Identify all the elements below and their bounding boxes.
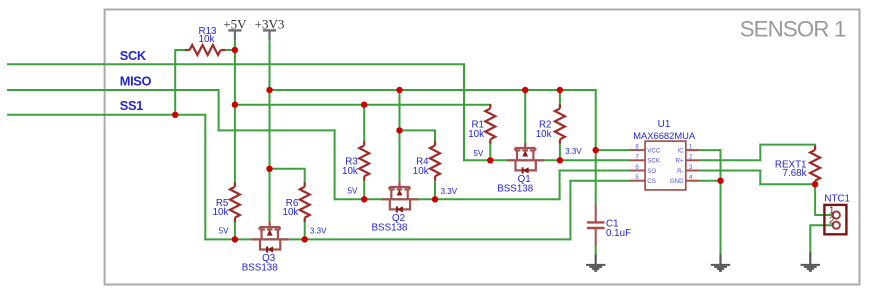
- resistor R3 10k: [359, 141, 369, 180]
- wire C1 bottom wire: [595, 245, 597, 254]
- svg-text:3.3V: 3.3V: [441, 187, 458, 196]
- svg-text:10k: 10k: [199, 34, 215, 45]
- junction REXT1 bottom / NTC1: [812, 181, 818, 187]
- resistor R4 10k: [430, 141, 440, 180]
- svg-text:MAX6682MUA: MAX6682MUA: [633, 130, 696, 141]
- wire branch to R4 top: [400, 130, 436, 141]
- svg-text:SCK: SCK: [647, 158, 661, 165]
- wire net SS1 horizontal entry: [8, 114, 205, 116]
- svg-text:10k: 10k: [413, 166, 429, 177]
- svg-text:R-: R-: [677, 168, 684, 175]
- junction R3 top on 5V row: [361, 102, 367, 108]
- U1 pin 7 (SCK) stub: [630, 159, 646, 161]
- transistor Q1 BSS138 (N-MOSFET): [507, 143, 544, 174]
- wire R2 bottom wire: [559, 144, 561, 161]
- junction R2 bottom on Q1 row: [557, 157, 563, 163]
- svg-text:U1: U1: [658, 119, 671, 130]
- junction R3 bottom on Q2 row: [361, 196, 367, 202]
- wire net SCK level-shifted row to U1 pin7: [464, 159, 630, 161]
- junction MISO row / R4 branch: [396, 127, 402, 133]
- ground symbol below U1 pin4 net: [711, 254, 730, 270]
- wire R5 bottom wire: [234, 222, 236, 240]
- svg-text:VCC: VCC: [647, 147, 661, 154]
- wire net CS step up: [569, 181, 571, 240]
- resistor R6 10k: [300, 183, 310, 222]
- svg-text:BSS138: BSS138: [242, 262, 279, 273]
- svg-text:BSS138: BSS138: [497, 183, 534, 194]
- U1 pin 6 (SO) stub: [630, 170, 646, 172]
- svg-text:NTC1: NTC1: [824, 194, 850, 205]
- svg-text:MISO: MISO: [120, 73, 152, 88]
- wire U1 pin4 wire: [699, 180, 721, 182]
- wire net MISO vertical drop at x=335: [334, 130, 336, 199]
- U1 pin 1 (IC) stub: [686, 149, 699, 151]
- wire NTC1 pin2 wire: [810, 225, 833, 252]
- resistor R2 10k: [555, 104, 565, 143]
- svg-text:10k: 10k: [468, 129, 484, 140]
- U1 pin 5 (CS) stub: [630, 180, 646, 182]
- wire Q1 gate vertical: [524, 90, 526, 143]
- wire net SS1 shifter row Q3: [205, 238, 570, 240]
- junction R6 bottom on SS1 row: [302, 236, 308, 242]
- wire R13 left lead wire and drop to SS1: [175, 50, 185, 115]
- svg-text:3.3V: 3.3V: [565, 147, 582, 156]
- svg-text:R+: R+: [676, 158, 684, 165]
- svg-text:10k: 10k: [213, 207, 229, 218]
- wire net CS row to U1 pin5: [570, 180, 629, 182]
- junction R4 bottom on Q2 row: [432, 196, 438, 202]
- svg-text:IC: IC: [677, 147, 684, 154]
- wire net SS1 vertical drop at x=205: [204, 115, 206, 240]
- NTC1 pin 1 circle: [833, 211, 840, 218]
- svg-text:SCK: SCK: [120, 48, 147, 63]
- power symbol +5V: [228, 30, 241, 39]
- junction R1 bottom on Q1 row: [487, 157, 493, 163]
- wire pin3 dropper: [759, 171, 761, 185]
- svg-text:7.68k: 7.68k: [783, 168, 807, 179]
- svg-text:2: 2: [829, 216, 835, 227]
- wire U1 pin3 wire: [699, 170, 760, 172]
- wire ground drop at x=720: [720, 150, 722, 254]
- svg-text:BSS138: BSS138: [372, 222, 409, 233]
- wire +5V distribution row: [235, 104, 490, 106]
- junction VCC junction: [593, 147, 599, 153]
- wire net MISO middle row: [219, 129, 335, 131]
- wire U1 pin1 to ground net: [699, 149, 721, 151]
- svg-text:5V: 5V: [219, 227, 229, 236]
- op-amp/IC U1 MAX6682MUA body: [645, 141, 686, 190]
- transistor Q2 BSS138 (N-MOSFET): [381, 182, 418, 213]
- wire +3V3 drop to VCC and C1: [595, 90, 597, 205]
- wire R13 right lead wire to +5V: [225, 49, 235, 51]
- wire REXT1 bottom to NTC1 pin1: [815, 185, 833, 215]
- junction Q2 gate drop on 3V3 row: [396, 87, 402, 93]
- wire pin2 top run to REXT1: [760, 145, 815, 146]
- svg-text:+5V: +5V: [223, 16, 247, 31]
- wire net MISO vertical drop at x=219: [218, 90, 220, 130]
- svg-text:10k: 10k: [342, 166, 358, 177]
- NTC1 pin 2 circle: [833, 222, 840, 229]
- wire net SO row to U1 pin6: [560, 170, 630, 172]
- wire net SCK vertical drop at x=464: [463, 64, 465, 160]
- junction R5 bottom on SS1 row: [232, 236, 238, 242]
- wire R6 bottom wire: [304, 222, 306, 240]
- capacitor C1 0.1uF: [587, 205, 605, 246]
- wire R3 bottom wire: [363, 181, 365, 200]
- junction +5V rail / 5V row: [232, 102, 238, 108]
- svg-text:3.3V: 3.3V: [310, 226, 327, 235]
- resistor R1 10k: [485, 104, 495, 143]
- U1 pin 2 (R+) stub: [686, 159, 699, 161]
- junction Q1 gate drop on 3V3 row: [522, 87, 528, 93]
- wire +3V3 distribution row: [270, 89, 596, 91]
- wire Q2 gate vertical: [399, 90, 401, 182]
- wire R4 bottom wire: [434, 181, 436, 200]
- svg-text:+3V3: +3V3: [255, 16, 285, 31]
- wire net SCK horizontal entry: [8, 63, 464, 65]
- svg-text:GND: GND: [670, 178, 684, 185]
- svg-text:5V: 5V: [348, 186, 358, 195]
- power symbol +3V3: [263, 30, 276, 39]
- resistor R5 10k: [230, 183, 240, 222]
- wire R2 top wire: [559, 90, 561, 104]
- wire net MISO horizontal entry: [8, 89, 219, 91]
- junction SS1 / R13 branch: [172, 112, 178, 118]
- svg-text:SO: SO: [647, 168, 656, 175]
- junction R2 top on 3V3 row: [557, 87, 563, 93]
- svg-text:SENSOR 1: SENSOR 1: [740, 16, 846, 41]
- junction +3V3 / R6 branch: [266, 166, 272, 172]
- wire branch to R6 top: [270, 169, 305, 183]
- resistor REXT1 7.68k: [810, 146, 820, 186]
- svg-text:0.1uF: 0.1uF: [606, 228, 631, 239]
- ground symbol below C1: [586, 254, 605, 270]
- U1 pin 4 (GND) stub: [686, 180, 699, 182]
- wire +3V3 rail vertical to Q3 gate: [269, 40, 271, 222]
- wire pin2 riser: [759, 145, 761, 161]
- svg-text:SS1: SS1: [120, 98, 143, 113]
- junction R13 right / +5V: [232, 47, 238, 53]
- svg-text:10k: 10k: [536, 129, 552, 140]
- transistor Q3 BSS138 (N-MOSFET): [251, 222, 288, 253]
- wire VCC row to U1 pin8: [596, 149, 630, 151]
- wire R1 bottom wire: [489, 144, 491, 161]
- wire pin3 bottom run to REXT1 bottom: [760, 183, 815, 185]
- connector NTC1 body: [824, 205, 846, 234]
- svg-text:CS: CS: [647, 178, 656, 185]
- wire net SO step up: [559, 171, 561, 200]
- wire U1 pin2 wire: [699, 159, 760, 161]
- resistor R13 10k (horizontal): [185, 45, 225, 55]
- ground symbol below NTC1 pin2: [801, 252, 820, 270]
- U1 pin 3 (R-) stub: [686, 170, 699, 172]
- junction U1 pin4 ground junction: [717, 178, 723, 184]
- wire R3 top wire: [363, 105, 365, 142]
- U1 pin 8 (VCC) stub: [630, 149, 646, 151]
- svg-text:5V: 5V: [474, 149, 484, 158]
- wire +5V rail vertical: [234, 40, 236, 183]
- junction +3V3 rail / 3V3 row: [266, 87, 272, 93]
- svg-text:10k: 10k: [283, 207, 299, 218]
- wire net MISO shifter row Q2: [335, 198, 560, 200]
